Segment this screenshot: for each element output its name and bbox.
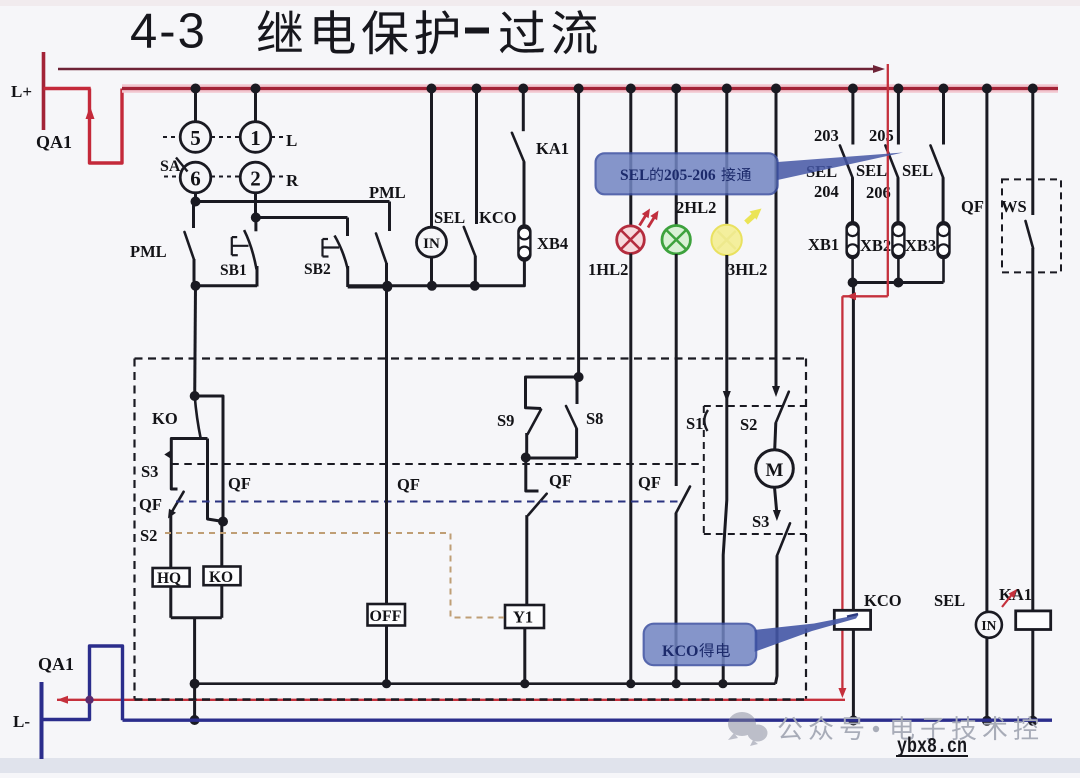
svg-text:SB2: SB2 — [304, 261, 331, 278]
wire bus to 3HL2 — [725, 89, 728, 229]
svg-text:1: 1 — [250, 126, 261, 150]
contact PML (seal-in) — [192, 202, 195, 229]
svg-text:XB2: XB2 — [860, 236, 891, 255]
L- bus — [123, 719, 1053, 722]
svg-text:XB4: XB4 — [537, 234, 568, 253]
svg-text:L+: L+ — [11, 82, 32, 101]
wire Y1 to node line — [523, 628, 526, 684]
svg-text:QA1: QA1 — [36, 132, 72, 152]
node below PML — [191, 281, 201, 291]
WS dashed enclosure — [1002, 179, 1061, 272]
arrow on 3HL2 wire — [723, 391, 731, 402]
SA handle — [176, 158, 188, 172]
wire XB4 to node row — [348, 261, 525, 286]
pushbutton SB1 — [254, 218, 257, 232]
svg-text:3HL2: 3HL2 — [727, 260, 767, 279]
svg-text:SEL: SEL — [856, 161, 887, 180]
link XB4 — [518, 226, 530, 261]
svg-text:R: R — [286, 171, 299, 190]
callout KCO energized — [754, 615, 859, 652]
contact KA1 — [522, 89, 525, 132]
wire bus to 1HL2 — [629, 89, 632, 227]
S2 linkage dashed (tan) — [165, 533, 504, 618]
svg-text:2: 2 — [250, 167, 261, 191]
svg-text:PML: PML — [369, 183, 406, 202]
wire PML node down — [193, 286, 197, 396]
switch S3 with arrow — [775, 487, 777, 514]
breaker QA1 positive (drawout step) — [90, 89, 123, 164]
coil KCO — [834, 610, 870, 629]
wire IN to node row — [430, 257, 433, 286]
svg-text:SEL: SEL — [934, 591, 965, 610]
bypass wire right — [195, 396, 223, 522]
svg-text:SEL: SEL — [620, 167, 649, 184]
watermark wechat icon — [728, 712, 768, 746]
svg-text:2HL2: 2HL2 — [676, 198, 716, 217]
wire SB2 to node row — [348, 286, 388, 289]
link XB1 — [847, 222, 859, 258]
SA contact 5 — [180, 122, 211, 153]
contact KO — [195, 396, 201, 439]
red return line bottom — [57, 699, 845, 701]
svg-text:QF: QF — [961, 197, 984, 216]
coil KO — [204, 567, 241, 586]
svg-text:PML: PML — [130, 242, 167, 261]
wire join down — [193, 618, 196, 720]
XB bottom join — [850, 281, 944, 284]
contact SEL — [475, 89, 478, 225]
svg-text:S2: S2 — [740, 415, 757, 434]
lamp 2HL2 (green) — [662, 226, 690, 254]
wire OFF down — [385, 626, 388, 684]
svg-text:QF: QF — [549, 471, 572, 490]
L- terminal bar — [40, 682, 44, 759]
svg-text:HQ: HQ — [157, 570, 181, 587]
svg-text:S2: S2 — [140, 526, 157, 545]
node KO top — [190, 391, 200, 401]
contact SEL 2 — [897, 89, 900, 145]
wire 1HL2 down — [629, 254, 632, 684]
svg-text:QF: QF — [228, 474, 251, 493]
wire SB1 bottom to PML node — [196, 284, 258, 287]
wire 2HL2 down to QF — [675, 254, 678, 486]
wire M branch down — [776, 556, 778, 684]
node S9/S8 top — [574, 372, 584, 382]
meter IN bottom — [976, 612, 1002, 638]
red arrows — [640, 213, 648, 226]
coil OFF — [368, 604, 406, 626]
link XB2 — [892, 222, 904, 258]
svg-text:S1: S1 — [686, 414, 703, 433]
node below SB2/PML — [382, 282, 392, 292]
node above KO coil — [218, 517, 228, 527]
svg-text:IN: IN — [981, 618, 996, 633]
node line (common) — [195, 682, 776, 685]
sampling line with arrow — [58, 68, 874, 70]
svg-text:5: 5 — [190, 126, 201, 150]
contact QF left — [171, 492, 184, 514]
svg-text:IN: IN — [423, 236, 440, 252]
contact SEL 1 — [851, 89, 854, 145]
svg-text:L: L — [286, 131, 297, 150]
contact WS — [1031, 89, 1034, 216]
svg-text:204: 204 — [814, 182, 839, 201]
switch S2 with arrow — [772, 386, 780, 397]
svg-text:KO: KO — [209, 569, 233, 586]
wire node to PML2 top — [196, 200, 390, 203]
wire 3HL2 down — [723, 255, 727, 684]
switch S1 — [704, 410, 708, 431]
SA contact 6 — [180, 162, 211, 193]
wire bracket to node — [208, 439, 224, 522]
SA linkage dashes row R — [164, 176, 176, 178]
red trip path vertical — [887, 64, 889, 296]
wire node row to OFF — [385, 287, 388, 604]
top control bus (red) — [122, 84, 1058, 93]
wire node to SB2 top — [256, 216, 348, 219]
SA contact 2 — [240, 162, 271, 193]
pushbutton SB2 — [346, 218, 349, 237]
link XB3 — [938, 222, 950, 258]
svg-text:203: 203 — [814, 126, 839, 145]
svg-text:QF: QF — [139, 495, 162, 514]
svg-text:M: M — [766, 460, 784, 481]
wire QF (to IN meter) — [985, 89, 988, 612]
svg-text:205-206: 205-206 — [664, 167, 716, 184]
SA linkage dashes row L — [163, 136, 180, 138]
svg-text:SEL: SEL — [434, 208, 465, 227]
wire bus to 2HL2 — [675, 89, 678, 226]
QF linkage dashed (blue) — [176, 500, 683, 502]
svg-text:OFF: OFF — [370, 608, 402, 625]
wire XB join down to KCO — [852, 283, 855, 611]
switch S9 — [526, 377, 579, 409]
red arrow to KA1 — [1002, 592, 1014, 607]
wire KA1 to L- — [1031, 630, 1034, 721]
svg-text:KO: KO — [152, 409, 178, 428]
wire KO coil top — [220, 522, 223, 567]
svg-text:SB1: SB1 — [220, 262, 247, 279]
svg-text:S8: S8 — [586, 409, 603, 428]
svg-text:SEL: SEL — [902, 161, 933, 180]
red vertical to KCO — [841, 296, 843, 692]
crossing dot — [85, 696, 93, 704]
svg-text:S3: S3 — [141, 462, 158, 481]
node under SA2 — [251, 213, 261, 223]
S3 changeover bracket — [171, 439, 207, 490]
S3 linkage dashed — [171, 463, 704, 465]
wires coils to join — [169, 587, 172, 618]
wire S9/S8 bottom join — [526, 457, 577, 460]
svg-text:QF: QF — [397, 475, 420, 494]
yellow arrow — [746, 213, 757, 223]
wire bus to SA-5 — [194, 89, 197, 122]
coil Y1 — [505, 605, 544, 628]
coil HQ — [153, 568, 190, 587]
bus junction dots — [191, 84, 201, 94]
SA contact 1 — [240, 122, 271, 153]
svg-text:KA1: KA1 — [999, 585, 1032, 604]
contact QF on 2HL2 wire — [676, 487, 690, 514]
svg-text:KA1: KA1 — [536, 139, 569, 158]
svg-text:1HL2: 1HL2 — [588, 260, 628, 279]
lamp 1HL2 (red) — [617, 226, 645, 254]
wire bus to SA-1 — [254, 89, 257, 122]
svg-text:Y1: Y1 — [513, 608, 533, 627]
svg-text:205: 205 — [869, 126, 894, 145]
motor M — [756, 450, 794, 488]
svg-text:S9: S9 — [497, 411, 514, 430]
svg-text:KCO: KCO — [662, 643, 698, 660]
svg-text:XB3: XB3 — [905, 236, 936, 255]
breaker QA1 negative (step) — [42, 646, 123, 720]
svg-text:L-: L- — [13, 712, 30, 731]
node row dots — [382, 281, 392, 291]
dashed enclosure (cabinet) — [135, 357, 807, 359]
contact SEL 3 — [942, 89, 945, 145]
dashed enclosure (limit switches) — [704, 405, 806, 407]
svg-text:4-3: 4-3 — [130, 5, 207, 59]
wire IN to L- — [985, 638, 988, 721]
watermark text — [778, 717, 802, 740]
svg-text:S3: S3 — [752, 512, 769, 531]
svg-text:WS: WS — [1001, 197, 1027, 216]
wire SA6 to node — [194, 193, 197, 202]
contact QF under S9 — [526, 458, 539, 492]
wire SA2 to node — [254, 193, 257, 218]
svg-text:QA1: QA1 — [38, 654, 74, 674]
title text — [258, 10, 302, 52]
wire KCO to L- — [852, 629, 855, 720]
wire bus to S2 — [775, 89, 778, 391]
svg-text:KCO: KCO — [864, 591, 902, 610]
callout SEL 205-206 — [778, 153, 904, 181]
dashed box bottom edge — [135, 698, 807, 700]
svg-text:XB1: XB1 — [808, 235, 839, 254]
contact PML second — [388, 202, 391, 232]
wire L+ to bus — [44, 87, 91, 90]
wire bus to S9/S8 — [577, 89, 580, 378]
coil KA1 — [1016, 611, 1051, 630]
wire bus to IN — [430, 89, 433, 228]
node under SA6 — [191, 197, 201, 207]
meter IN — [417, 227, 447, 257]
lamp 3HL2 (yellow) — [711, 225, 741, 255]
svg-text:QF: QF — [638, 473, 661, 492]
switch S8 — [576, 377, 579, 404]
L+ terminal bar — [42, 52, 46, 130]
svg-text:KCO: KCO — [479, 208, 517, 227]
svg-text:6: 6 — [190, 167, 201, 191]
red elbow — [842, 295, 887, 297]
